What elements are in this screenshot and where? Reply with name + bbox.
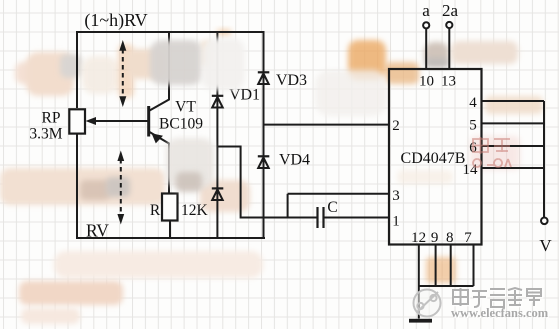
svg-text:www.elecfans.com: www.elecfans.com	[451, 306, 549, 320]
svg-text:12: 12	[411, 230, 426, 246]
svg-text:10: 10	[419, 74, 434, 90]
char 5	[527, 289, 541, 306]
svg-text:13: 13	[441, 74, 456, 90]
svg-text:9: 9	[431, 230, 439, 246]
terminal a circle	[423, 22, 429, 28]
svg-text:RP: RP	[42, 110, 61, 127]
wire: pin 12 lead down	[418, 245, 420, 287]
wire: pin 7 lead down	[473, 245, 475, 287]
wire: bottom rail of RV box	[76, 237, 265, 239]
wire: VD1 column	[216, 32, 218, 239]
wire: VD3/VD4 column (right rail of RV box)	[263, 32, 264, 239]
wire: terminal a lead to pin 10	[425, 28, 427, 69]
wire: left rail of RV box upper	[76, 31, 78, 108]
wire: to IC pin 2	[264, 124, 390, 126]
svg-text:C: C	[327, 199, 337, 216]
capacitor C plates	[318, 207, 324, 228]
elecfans watermark text (emboss ghost chars)	[454, 289, 542, 308]
wire: pin3 branch junction vertical	[287, 194, 289, 218]
transistor VT emitter arrowhead	[152, 133, 164, 143]
wire: bottom common rail	[419, 285, 474, 287]
svg-text:(1~h)RV: (1~h)RV	[84, 10, 147, 31]
svg-text:1: 1	[392, 214, 400, 230]
potentiometer RP body	[69, 109, 85, 133]
svg-text:VD4: VD4	[279, 152, 310, 169]
diode VD1	[212, 96, 224, 108]
RP wiper arrowhead	[86, 117, 97, 125]
terminal V circle	[541, 218, 548, 225]
wire: V bus vertical	[543, 101, 545, 217]
wire: pin 6 lead	[482, 145, 545, 147]
wire: top rail of RV box	[77, 31, 264, 33]
wire: pin 9 lead down	[435, 245, 437, 287]
char 1	[453, 288, 468, 306]
svg-text:8: 8	[446, 230, 454, 246]
svg-text:V: V	[539, 236, 552, 255]
svg-text:2: 2	[392, 118, 400, 134]
svg-text:VT: VT	[175, 99, 196, 116]
diode VD2 (unlabelled)	[212, 188, 224, 200]
svg-text:2a: 2a	[442, 1, 459, 20]
wire: pin 4 lead to V bus	[482, 100, 545, 102]
transistor VT collector lead	[149, 32, 169, 111]
svg-text:4: 4	[469, 95, 477, 111]
dashed arrow lower (RV adjust)	[117, 151, 124, 225]
wire: branch from VD1 column to capacitor line	[217, 147, 316, 218]
wire: ground lead	[418, 286, 420, 319]
svg-text:R: R	[150, 202, 161, 219]
elecfans watermark logo circle	[414, 290, 441, 317]
svg-text:3: 3	[392, 188, 400, 204]
resistor R body	[162, 194, 178, 221]
char 4	[508, 288, 522, 306]
dashed arrow upper (RV adjust)	[119, 40, 126, 107]
char 3	[490, 289, 505, 307]
transistor VT base bar	[147, 106, 150, 137]
diode VD3	[258, 72, 270, 84]
svg-text:12K: 12K	[181, 202, 209, 219]
wire: pin 14 lead	[482, 167, 545, 169]
wire: pin 5 lead	[482, 122, 545, 124]
terminal 2a circle	[446, 22, 452, 28]
watermark blobs (over layer)	[150, 38, 245, 192]
watermark red ghost chars (right)	[473, 137, 511, 167]
wire: to IC pin 3	[288, 193, 389, 195]
svg-text:a: a	[422, 1, 430, 20]
wire: left rail of RV box lower	[76, 135, 78, 240]
svg-text:3.3M: 3.3M	[29, 126, 62, 143]
wire: RP wiper lead to transistor base	[92, 120, 149, 122]
char 2	[472, 291, 487, 307]
svg-text:CD4047B: CD4047B	[401, 150, 466, 167]
ground	[409, 319, 432, 323]
wire: terminal 2a lead to pin 13	[448, 28, 450, 69]
IC U1 CD4047B body	[389, 69, 482, 245]
transistor VT emitter lead	[149, 132, 169, 195]
diode VD4	[258, 156, 270, 168]
svg-text:RV: RV	[86, 221, 109, 241]
svg-text:5: 5	[469, 118, 477, 134]
svg-text:7: 7	[464, 230, 472, 246]
svg-text:BC109: BC109	[159, 116, 203, 133]
wire: C right plate to IC pin 1	[324, 217, 390, 219]
wire: R bottom to box bottom rail	[169, 221, 171, 239]
svg-text:VD3: VD3	[276, 72, 307, 89]
wire: pin 8 lead down	[450, 245, 452, 287]
